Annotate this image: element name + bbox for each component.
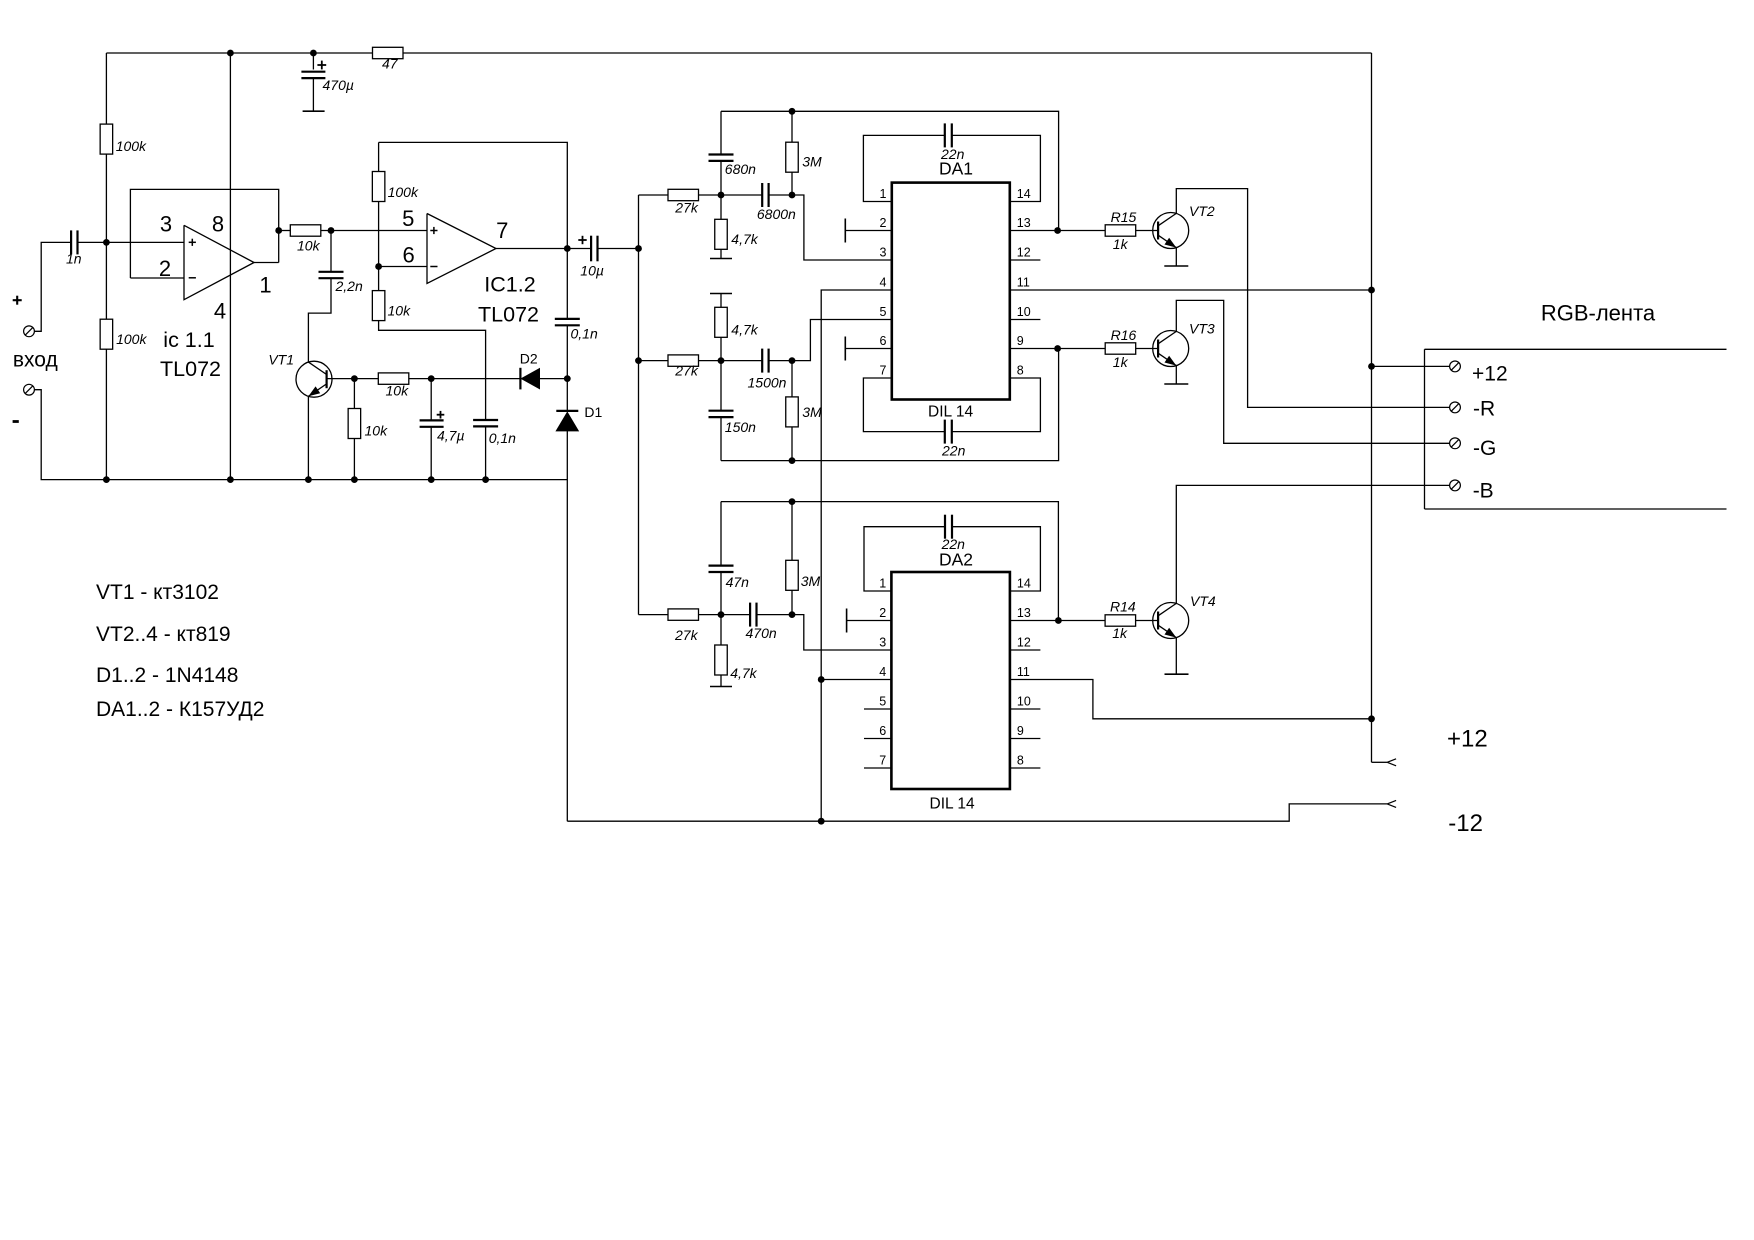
svg-text:100k: 100k	[388, 184, 419, 200]
svg-text:VT3: VT3	[1189, 321, 1215, 337]
svg-text:3: 3	[879, 636, 886, 650]
svg-text:12: 12	[1017, 246, 1031, 260]
svg-text:DIL 14: DIL 14	[928, 404, 973, 421]
svg-text:22n: 22n	[941, 536, 966, 552]
svg-text:680n: 680n	[725, 161, 756, 177]
svg-text:DA2: DA2	[939, 550, 973, 570]
svg-text:TL072: TL072	[160, 357, 221, 381]
svg-text:3: 3	[880, 246, 887, 260]
svg-text:4,7k: 4,7k	[731, 231, 758, 247]
svg-text:7: 7	[879, 754, 886, 768]
svg-text:0,1n: 0,1n	[489, 430, 516, 446]
svg-text:10µ: 10µ	[580, 263, 604, 279]
svg-text:11: 11	[1017, 665, 1030, 679]
svg-text:4: 4	[879, 665, 886, 679]
svg-text:27k: 27k	[674, 200, 699, 216]
svg-text:0,1n: 0,1n	[571, 326, 598, 342]
svg-text:14: 14	[1017, 187, 1031, 201]
svg-text:2: 2	[880, 216, 887, 230]
svg-text:9: 9	[1017, 724, 1024, 738]
svg-text:8: 8	[1017, 364, 1024, 378]
svg-text:DIL 14: DIL 14	[930, 796, 975, 813]
svg-text:6: 6	[879, 724, 886, 738]
svg-text:IC1.2: IC1.2	[484, 273, 535, 297]
svg-text:47: 47	[382, 56, 399, 72]
svg-text:-12: -12	[1448, 810, 1483, 837]
svg-text:14: 14	[1017, 577, 1031, 591]
svg-text:13: 13	[1017, 606, 1031, 620]
svg-text:4,7k: 4,7k	[731, 322, 758, 338]
svg-text:100k: 100k	[116, 331, 147, 347]
svg-text:1: 1	[880, 187, 887, 201]
svg-text:100k: 100k	[116, 138, 147, 154]
svg-text:1: 1	[259, 272, 271, 297]
svg-text:D2: D2	[520, 351, 538, 367]
svg-text:2,2n: 2,2n	[335, 278, 363, 294]
svg-text:TL072: TL072	[478, 303, 539, 327]
svg-text:47n: 47n	[726, 574, 750, 590]
svg-text:VT1: VT1	[268, 352, 294, 368]
svg-text:10: 10	[1017, 305, 1031, 319]
svg-text:9: 9	[1017, 334, 1024, 348]
svg-text:VT2: VT2	[1189, 203, 1215, 219]
svg-text:R14: R14	[1110, 599, 1136, 615]
svg-text:470µ: 470µ	[323, 77, 354, 93]
svg-text:2: 2	[159, 256, 171, 281]
svg-text:1k: 1k	[1113, 236, 1129, 252]
svg-text:13: 13	[1017, 216, 1031, 230]
svg-text:11: 11	[1017, 276, 1030, 290]
svg-text:4,7µ: 4,7µ	[437, 428, 465, 444]
svg-text:1500n: 1500n	[748, 375, 787, 391]
svg-text:2: 2	[879, 606, 886, 620]
svg-text:6: 6	[402, 242, 414, 267]
svg-text:вход: вход	[13, 349, 58, 372]
svg-text:5: 5	[880, 305, 887, 319]
svg-text:12: 12	[1017, 636, 1031, 650]
svg-text:7: 7	[880, 364, 887, 378]
svg-text:27k: 27k	[674, 627, 699, 643]
svg-text:8: 8	[212, 212, 224, 237]
svg-text:150n: 150n	[725, 419, 756, 435]
svg-text:1k: 1k	[1113, 354, 1129, 370]
svg-text:470n: 470n	[746, 625, 777, 641]
svg-text:+12: +12	[1447, 726, 1488, 753]
svg-text:8: 8	[1017, 754, 1024, 768]
svg-text:R15: R15	[1111, 209, 1137, 225]
svg-text:ic 1.1: ic 1.1	[163, 328, 214, 352]
svg-text:1n: 1n	[66, 251, 82, 267]
svg-text:D1: D1	[584, 404, 602, 420]
svg-text:-B: -B	[1473, 480, 1494, 503]
svg-text:27k: 27k	[674, 363, 699, 379]
svg-text:DA1..2 - К157УД2: DA1..2 - К157УД2	[96, 698, 264, 721]
svg-text:3M: 3M	[802, 154, 822, 170]
svg-text:7: 7	[496, 218, 508, 243]
svg-text:3: 3	[160, 212, 172, 237]
svg-text:3M: 3M	[802, 404, 822, 420]
svg-text:10k: 10k	[388, 303, 412, 319]
svg-text:VT2..4 - кт819: VT2..4 - кт819	[96, 623, 231, 646]
svg-text:VT4: VT4	[1190, 593, 1216, 609]
svg-text:4,7k: 4,7k	[730, 665, 757, 681]
svg-text:22n: 22n	[941, 443, 966, 459]
svg-text:10k: 10k	[365, 423, 389, 439]
svg-text:10k: 10k	[386, 383, 410, 399]
svg-text:D1..2 - 1N4148: D1..2 - 1N4148	[96, 664, 238, 687]
svg-text:6800n: 6800n	[757, 206, 796, 222]
svg-text:VT1 - кт3102: VT1 - кт3102	[96, 581, 219, 604]
svg-text:RGB-лента: RGB-лента	[1541, 301, 1656, 326]
svg-text:3M: 3M	[801, 573, 821, 589]
svg-text:-R: -R	[1473, 398, 1495, 421]
svg-text:10k: 10k	[297, 238, 321, 254]
svg-text:-G: -G	[1473, 437, 1496, 460]
svg-text:+12: +12	[1472, 362, 1508, 385]
svg-text:5: 5	[402, 206, 414, 231]
svg-text:4: 4	[214, 299, 226, 324]
svg-text:10: 10	[1017, 695, 1031, 709]
svg-text:R16: R16	[1111, 327, 1137, 343]
svg-text:5: 5	[879, 695, 886, 709]
svg-text:22n: 22n	[940, 146, 965, 162]
svg-text:1k: 1k	[1112, 625, 1128, 641]
svg-text:1: 1	[879, 577, 886, 591]
svg-text:6: 6	[880, 334, 887, 348]
svg-text:4: 4	[880, 276, 887, 290]
